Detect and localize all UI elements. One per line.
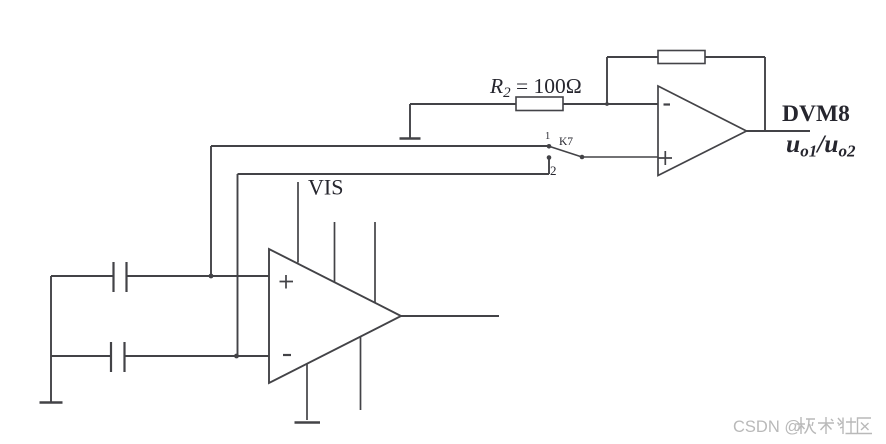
wire stub below U1 to ground <box>306 364 308 421</box>
wire C2 to U1 - input <box>125 355 270 357</box>
wire U2 output <box>747 130 811 132</box>
wire feedback vertical right to output <box>764 57 766 131</box>
op-amp U1 (VIS) <box>269 249 401 383</box>
wire U1 noninverting input (top) <box>51 275 113 277</box>
node A junction on + input wire <box>209 274 214 279</box>
svg-text:VIS: VIS <box>308 175 343 200</box>
svg-text:1: 1 <box>545 131 550 142</box>
wire vertical from node A up to switch line 1 <box>210 146 212 276</box>
wire left vertical joining capacitors <box>50 276 52 356</box>
wire R2 to U2 - input <box>563 103 658 105</box>
hanzi qu <box>858 418 873 434</box>
wire U1 output <box>401 315 499 317</box>
capacitor C1 <box>114 262 127 292</box>
svg-text:uo1/uo2: uo1/uo2 <box>786 129 856 161</box>
svg-text:2: 2 <box>550 163 557 178</box>
capacitor C2 <box>111 342 125 372</box>
svg-text:K7: K7 <box>559 136 573 148</box>
wire stub terminal 2 up <box>548 158 550 175</box>
node feedback tap on - input wire <box>605 102 609 106</box>
wire C1 to U1 + input <box>127 275 270 277</box>
op-amp U2 (DVM8) <box>658 86 747 176</box>
node B junction on - input wire <box>234 354 239 359</box>
wire stub terminal line 3 above U1 <box>374 222 376 303</box>
ground at bottom left <box>40 356 63 403</box>
wire horizontal to K7 terminal 2 <box>238 173 550 175</box>
switch K7 <box>547 144 585 160</box>
wire stub terminal line 1 above U1 <box>297 182 299 263</box>
wire ground to R2 <box>410 103 516 105</box>
ground below U1 <box>295 421 321 423</box>
hanzi she <box>838 418 844 435</box>
svg-text:DVM8: DVM8 <box>782 101 850 127</box>
watermark CSDN @jishu community <box>733 417 872 436</box>
hanzi shu <box>818 417 834 434</box>
wire feedback top right <box>705 56 765 58</box>
wire K7 pole to U2 + input <box>582 156 658 158</box>
wire feedback top left <box>607 56 658 58</box>
wire stub terminal line 2 above U1 <box>334 222 336 282</box>
svg-text:CSDN @: CSDN @ <box>733 418 801 436</box>
wire horizontal to K7 terminal 1 <box>211 145 549 147</box>
resistor Rf feedback <box>658 51 705 64</box>
ground for R2 input <box>400 104 421 139</box>
wire feedback vertical left <box>606 57 608 104</box>
hanzi ji (tree radical) <box>797 417 805 434</box>
wire stub terminal below U1 <box>360 337 362 410</box>
resistor R2 <box>516 97 563 111</box>
wire U1 inverting input (bottom) <box>51 355 111 357</box>
wire vertical from node B up to switch line 2 <box>237 174 239 356</box>
svg-text:R2 = 100Ω: R2 = 100Ω <box>489 74 582 101</box>
